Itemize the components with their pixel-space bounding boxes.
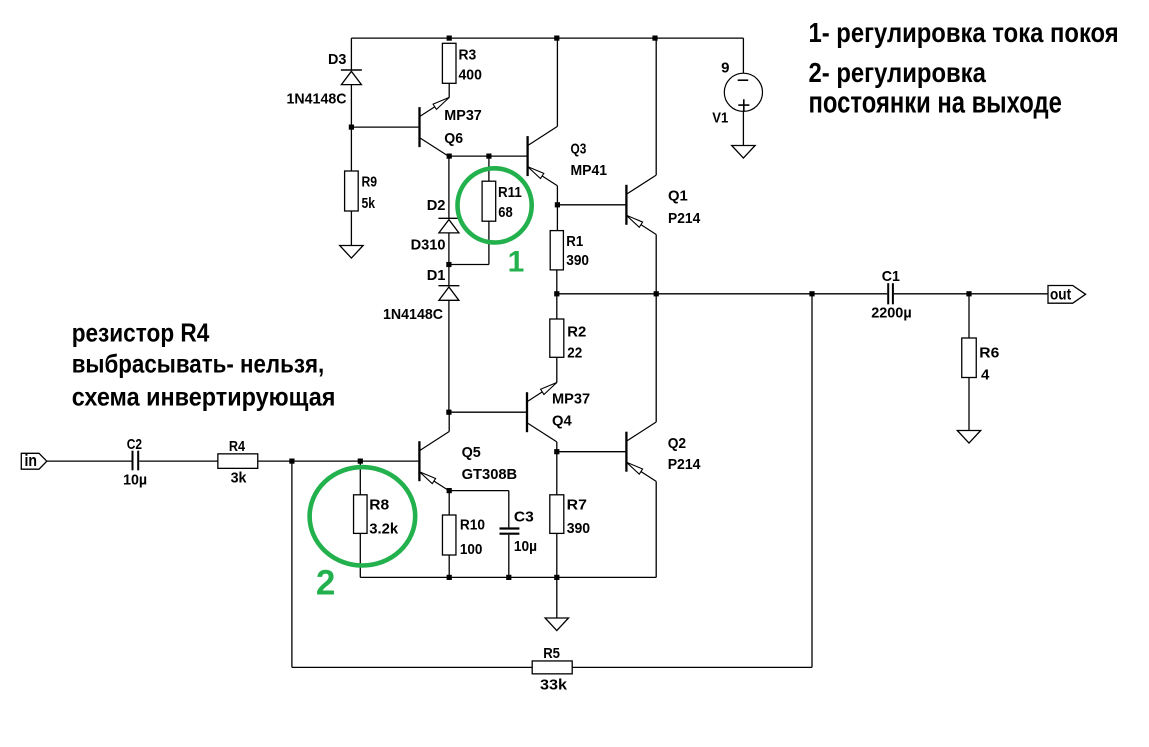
- wire V1 top lead: [742, 38, 744, 73]
- wire Q3 emitter lead: [556, 186, 558, 205]
- node top rail / Q3 collector: [554, 36, 559, 41]
- svg-text:R1: R1: [566, 233, 583, 250]
- svg-text:out: out: [1050, 287, 1072, 304]
- wire R2 top lead: [556, 294, 558, 319]
- svg-text:R8: R8: [369, 497, 389, 514]
- svg-text:10µ: 10µ: [514, 538, 537, 555]
- wire bottom rail: [360, 576, 656, 578]
- wire Q6 collector node to Q3 base: [449, 155, 527, 157]
- transistor Q3: [526, 136, 528, 176]
- diode D1: [438, 285, 459, 287]
- svg-text:1- регулировка тока покоя: 1- регулировка тока покоя: [809, 17, 1119, 48]
- svg-text:390: 390: [566, 252, 589, 269]
- resistor R7: [550, 495, 564, 534]
- wire R1 to out rail: [556, 270, 558, 294]
- wire R2 to Q4 emitter corner: [556, 357, 558, 382]
- wire Q1 emitter to out rail: [655, 235, 657, 294]
- node Q3 emitter / Q1 base: [555, 202, 560, 207]
- svg-text:C1: C1: [882, 268, 900, 285]
- resistor R6: [962, 338, 977, 378]
- wire D2 to node: [448, 233, 450, 265]
- node Q5 collector / Q4 base: [446, 410, 451, 415]
- wire R9 to ground: [350, 211, 352, 246]
- svg-text:Q6: Q6: [444, 130, 463, 147]
- resistor R1: [550, 231, 563, 270]
- wire R11 corner to D1 node: [449, 264, 489, 266]
- svg-text:R2: R2: [567, 323, 586, 340]
- wire Q1 collector riser: [655, 38, 657, 175]
- V1 minus sign: [738, 79, 749, 81]
- transistor Q5: [418, 441, 420, 481]
- svg-text:9: 9: [721, 59, 729, 76]
- wire R4 to Q5 base: [258, 460, 419, 462]
- capacitor C1: [887, 283, 889, 304]
- svg-text:Q4: Q4: [552, 413, 572, 430]
- node Q6 collector: [447, 154, 452, 159]
- svg-text:Q5: Q5: [462, 444, 481, 461]
- svg-text:R7: R7: [567, 497, 587, 514]
- wire out rail right: [894, 293, 1048, 295]
- ground below V1: [732, 146, 755, 159]
- node bottom rail / R7 ground: [554, 575, 559, 580]
- svg-text:постоянки на выходе: постоянки на выходе: [809, 85, 1062, 120]
- svg-text:Q2: Q2: [668, 435, 686, 452]
- svg-text:резистор R4: резистор R4: [72, 317, 210, 347]
- node bottom rail / C3: [506, 575, 511, 580]
- wire Q3 collector riser: [556, 38, 558, 126]
- wire out rail left: [557, 293, 887, 295]
- svg-text:схема инвертирующая: схема инвертирующая: [72, 381, 336, 411]
- wire Q5 emitter to node: [448, 490, 450, 492]
- wire R11 top lead: [488, 156, 490, 181]
- svg-text:3.2k: 3.2k: [369, 521, 399, 538]
- node input / feedback R5: [289, 459, 294, 464]
- svg-text:100: 100: [460, 541, 483, 558]
- svg-text:R6: R6: [979, 345, 999, 362]
- svg-text:GT308B: GT308B: [462, 466, 518, 483]
- capacitor C2: [132, 451, 134, 471]
- resistor R10: [442, 515, 456, 555]
- resistor R9: [345, 171, 359, 211]
- resistor R4: [218, 454, 258, 469]
- green circle highlight 2 around R8: [310, 467, 416, 565]
- svg-text:D1: D1: [427, 267, 446, 284]
- svg-text:D310: D310: [411, 237, 446, 254]
- svg-text:R3: R3: [459, 46, 477, 63]
- wire feedback bottom left: [292, 666, 532, 668]
- svg-text:5k: 5k: [362, 195, 376, 212]
- wire Q6 base: [351, 126, 418, 128]
- svg-text:2200µ: 2200µ: [871, 304, 912, 321]
- diode D2: [438, 217, 459, 219]
- wire node to R9: [350, 127, 352, 171]
- wire C2 to R4: [139, 460, 218, 462]
- svg-text:22: 22: [567, 344, 582, 361]
- ground below R9: [340, 246, 363, 259]
- svg-text:1: 1: [508, 246, 525, 279]
- wire Q6 collector corner to node: [448, 155, 450, 158]
- wire V1 bottom lead: [742, 111, 744, 145]
- svg-text:MP37: MP37: [552, 391, 590, 408]
- transistor Q4: [526, 392, 528, 432]
- wire Q2 base: [557, 451, 627, 453]
- wire R7 top lead: [556, 452, 558, 495]
- wire R11 bottom lead: [488, 221, 490, 264]
- node out rail / Q1 Q2: [654, 291, 659, 296]
- svg-text:MP41: MP41: [571, 162, 608, 179]
- svg-text:V1: V1: [712, 110, 728, 127]
- wire Q4 collector corner to node: [556, 442, 558, 452]
- wire Q6 node to D2: [448, 156, 450, 218]
- wire R6 top lead: [968, 294, 970, 338]
- svg-text:R11: R11: [498, 184, 522, 201]
- wire D3 to node: [350, 85, 352, 128]
- svg-text:D3: D3: [328, 51, 346, 68]
- svg-text:R5: R5: [543, 645, 560, 662]
- diode D3: [341, 69, 362, 71]
- svg-text:1N4148C: 1N4148C: [383, 306, 443, 323]
- node input / R8: [358, 459, 363, 464]
- resistor R11: [482, 181, 496, 221]
- svg-text:2: 2: [316, 564, 335, 603]
- resistor R8: [354, 495, 368, 534]
- wire feedback bottom right: [572, 666, 812, 668]
- wire R6 to ground: [968, 378, 970, 431]
- transistor Q2: [625, 432, 627, 472]
- svg-text:Q3: Q3: [571, 141, 587, 158]
- svg-text:2- регулировка: 2- регулировка: [809, 57, 987, 88]
- svg-text:10µ: 10µ: [123, 472, 147, 489]
- wire Q4 base from D1 node: [449, 411, 526, 413]
- wire node to R1: [556, 205, 558, 231]
- svg-text:4: 4: [981, 366, 990, 383]
- wire Q2 collector riser: [655, 294, 657, 422]
- wire R3 to Q6 emitter corner: [448, 83, 450, 97]
- node Q5 emitter / R10 / C3: [447, 488, 452, 493]
- svg-text:R10: R10: [460, 517, 485, 534]
- wire D1 to Q5 collector node: [448, 300, 450, 412]
- voltage source V1 circle: [724, 73, 762, 111]
- node D2/D1/R11: [446, 262, 451, 267]
- resistor R2: [550, 319, 564, 357]
- port in: [21, 453, 47, 469]
- node out rail / R1: [554, 291, 559, 296]
- svg-text:MP37: MP37: [444, 107, 482, 124]
- V1 plus sign: [738, 104, 749, 106]
- svg-text:68: 68: [498, 204, 512, 221]
- wire feedback right vertical: [811, 294, 813, 668]
- node R11 top tap: [486, 154, 491, 159]
- svg-text:R9: R9: [362, 173, 378, 190]
- svg-text:33k: 33k: [540, 677, 568, 694]
- node out rail / R6: [966, 291, 971, 296]
- resistor R3: [442, 43, 456, 83]
- port out: [1048, 286, 1086, 304]
- svg-text:C2: C2: [127, 436, 142, 453]
- node Q4 collector / Q2 base / R7: [554, 449, 559, 454]
- svg-text:P214: P214: [668, 210, 701, 227]
- resistor R5: [532, 661, 572, 674]
- ground below R6: [957, 431, 980, 444]
- wire top supply rail: [351, 37, 743, 39]
- ground below bottom rail: [545, 618, 568, 631]
- node top rail / R3: [447, 36, 452, 41]
- wire Q5 collector lead: [448, 412, 450, 431]
- wire node to D1: [448, 265, 450, 286]
- wire ground stem: [556, 577, 558, 618]
- transistor Q1: [625, 185, 627, 225]
- node D3/R9/Q6 base: [349, 125, 354, 130]
- wire R8 bottom lead: [359, 533, 361, 577]
- green circle highlight 1 around R11: [458, 168, 532, 242]
- wire R10 top lead: [448, 491, 450, 515]
- svg-text:390: 390: [567, 520, 590, 537]
- wire C3 top lead: [508, 491, 510, 528]
- wire D3 top lead: [350, 38, 352, 70]
- svg-text:выбрасывать- нельзя,: выбрасывать- нельзя,: [72, 349, 325, 379]
- svg-text:R4: R4: [229, 438, 246, 455]
- svg-text:1N4148C: 1N4148C: [287, 91, 347, 108]
- wire Q5 emitter to C3: [449, 490, 509, 492]
- wire Q3 emitter node to Q1 base: [557, 204, 626, 206]
- wire R7 bottom lead: [556, 533, 558, 577]
- node out rail / feedback R5: [809, 291, 814, 296]
- node bottom rail / R10: [447, 575, 452, 580]
- wire in to C2: [47, 460, 132, 462]
- svg-text:in: in: [25, 451, 38, 470]
- wire R10 bottom lead: [448, 555, 450, 577]
- node top rail / Q1 collector: [652, 36, 657, 41]
- capacitor C3: [500, 527, 520, 529]
- svg-text:P214: P214: [668, 456, 701, 473]
- svg-text:D2: D2: [427, 197, 446, 214]
- wire R8 top lead: [359, 461, 361, 495]
- wire C3 bottom lead: [508, 535, 510, 578]
- wire feedback left vertical: [291, 461, 293, 667]
- svg-text:C3: C3: [514, 508, 534, 525]
- svg-text:3k: 3k: [231, 470, 248, 487]
- svg-text:400: 400: [459, 66, 482, 83]
- svg-text:Q1: Q1: [668, 187, 688, 204]
- transistor Q6: [418, 107, 420, 147]
- wire Q2 emitter to bottom rail: [655, 481, 657, 577]
